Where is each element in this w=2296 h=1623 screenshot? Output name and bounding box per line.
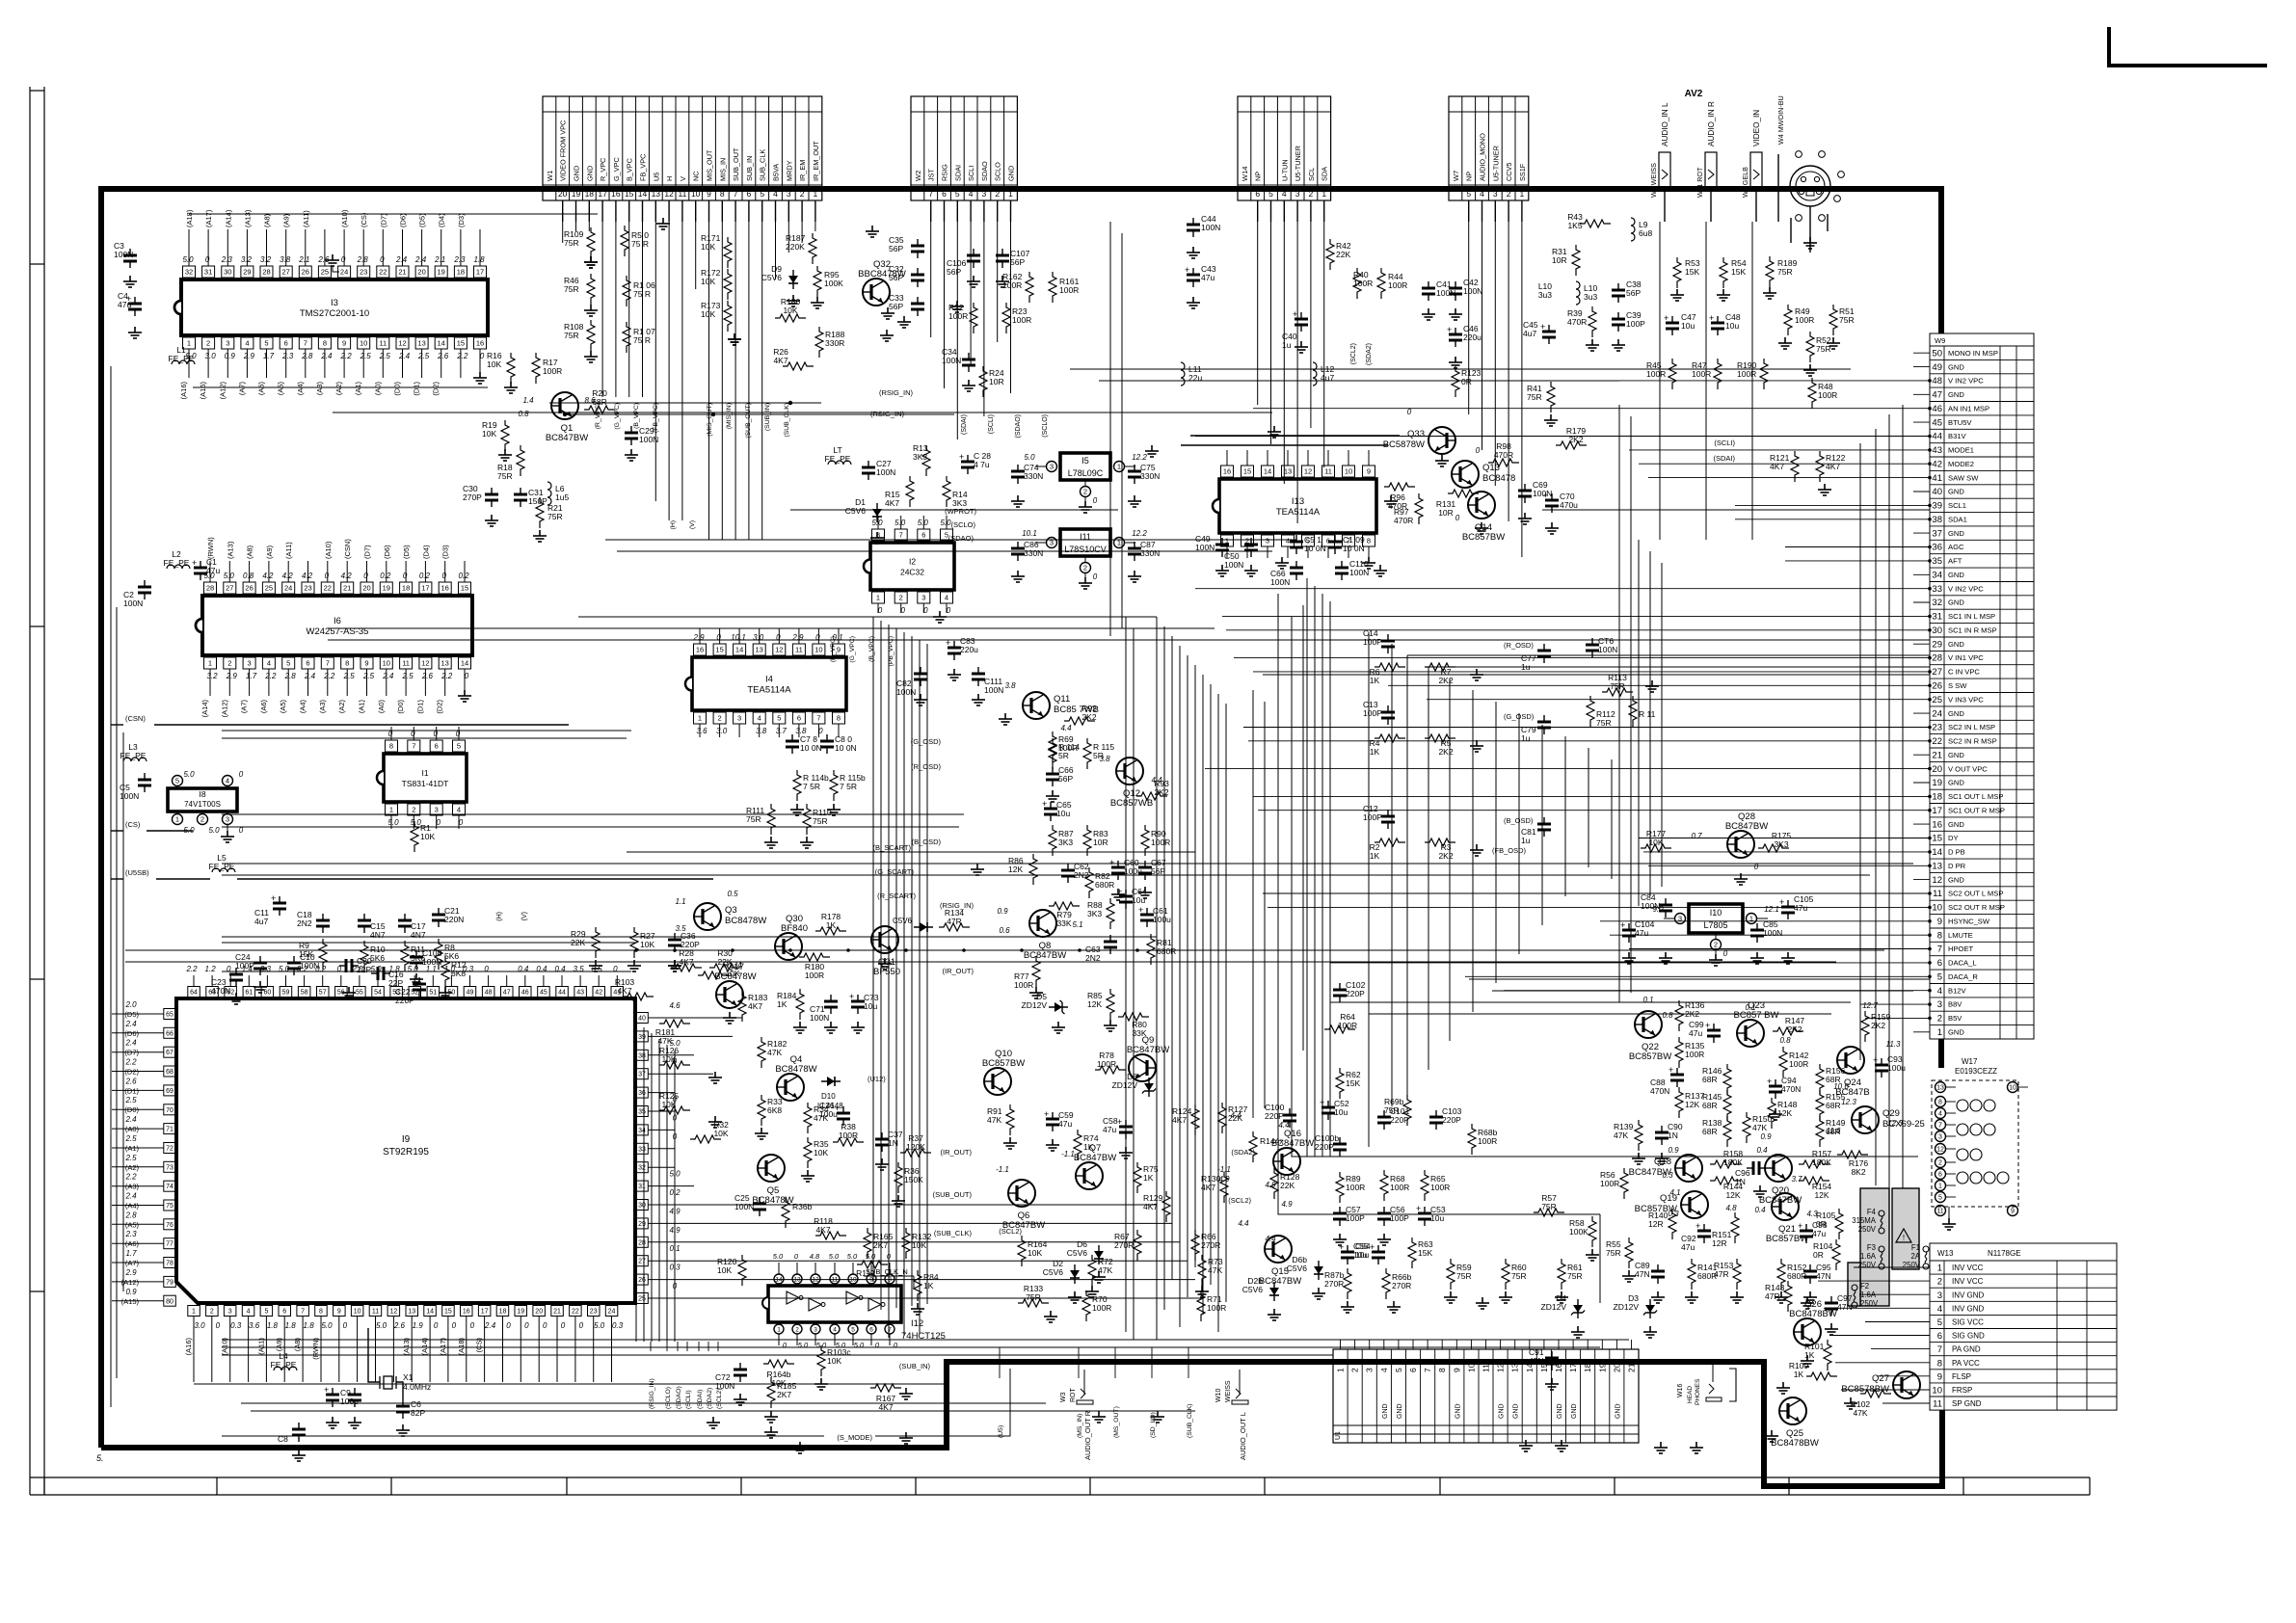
svg-text:0: 0 (716, 633, 721, 642)
svg-text:12K: 12K (1725, 1190, 1740, 1200)
svg-text:GND: GND (1948, 571, 1964, 579)
wire (1314, 586, 1316, 1157)
resistor R108 (587, 320, 595, 351)
ground (878, 958, 892, 970)
svg-text:100N: 100N (1270, 577, 1290, 587)
ground (1079, 577, 1092, 589)
svg-text:JST: JST (927, 168, 936, 181)
pin wire (366, 561, 368, 582)
svg-text:(A0): (A0) (377, 700, 386, 714)
capacitor C36 (668, 933, 681, 952)
svg-text:10R: 10R (989, 377, 1004, 386)
svg-text:47K: 47K (657, 1036, 672, 1046)
resistor R180 (799, 953, 830, 961)
pin wire (413, 815, 414, 829)
pin wire (362, 349, 364, 378)
wire (1078, 1347, 1080, 1378)
svg-text:(A11): (A11) (284, 542, 293, 559)
ground (1268, 426, 1281, 438)
svg-text:1: 1 (187, 339, 191, 348)
wire (1278, 594, 1600, 1214)
pin wire (421, 229, 423, 266)
resistor R178 (815, 927, 846, 935)
wire (888, 625, 890, 1338)
pin wire (211, 975, 213, 986)
svg-text:4.6: 4.6 (669, 1001, 681, 1010)
svg-text:47K: 47K (1853, 1408, 1867, 1418)
wire (1217, 694, 1219, 1332)
svg-text:79: 79 (166, 1279, 174, 1286)
svg-text:100N: 100N (1641, 901, 1660, 911)
svg-text:(A6): (A6) (259, 700, 268, 714)
wire (1945, 1184, 1956, 1186)
svg-text:2.5: 2.5 (360, 352, 372, 360)
wire (695, 222, 697, 289)
capacitor C46 (1449, 328, 1462, 347)
capacitor C103 (1429, 1110, 1443, 1130)
svg-text:10: 10 (1932, 903, 1942, 914)
wire (222, 730, 631, 732)
wire (1818, 1280, 1930, 1282)
svg-text:SCLI: SCLI (967, 166, 975, 181)
svg-text:47u: 47u (1794, 903, 1807, 913)
svg-text:C IN VPC: C IN VPC (1948, 668, 1980, 677)
svg-text:10 0N: 10 0N (1343, 544, 1365, 553)
svg-text:AN IN1 MSP: AN IN1 MSP (1948, 404, 1989, 412)
wire (1195, 588, 1930, 590)
svg-text:75R: 75R (1026, 1292, 1041, 1302)
pin wire (1529, 1340, 1531, 1349)
resistor R7 (1425, 663, 1455, 671)
svg-text:R 11: R 11 (1639, 709, 1656, 719)
svg-text:6: 6 (869, 1326, 873, 1333)
svg-text:75R: 75R (813, 816, 828, 826)
svg-text:0.3: 0.3 (230, 1321, 242, 1330)
svg-text:15: 15 (444, 1309, 452, 1316)
capacitor C105 (1781, 900, 1795, 919)
svg-text:0: 0 (1093, 572, 1098, 581)
svg-text:3K3: 3K3 (1774, 839, 1788, 849)
svg-text:1u5: 1u5 (555, 492, 569, 502)
wire (997, 222, 999, 342)
wire (666, 1045, 668, 1342)
pin wire (207, 229, 209, 266)
svg-text:10.1: 10.1 (731, 633, 746, 642)
svg-text:5: 5 (777, 714, 781, 723)
svg-text:GND: GND (1382, 1403, 1389, 1419)
transistor Q18 (1675, 1155, 1702, 1182)
resistor R145 (1723, 1090, 1731, 1121)
svg-text:100R: 100R (1795, 315, 1814, 325)
resistor R186 (775, 314, 806, 322)
pin wire (484, 1317, 486, 1382)
svg-text:SDAO: SDAO (980, 161, 989, 181)
svg-text:(U5): (U5) (998, 1425, 1004, 1438)
svg-text:120K: 120K (906, 1142, 925, 1152)
svg-text:70: 70 (166, 1107, 174, 1114)
capacitor C5 1 (1290, 535, 1303, 554)
svg-text:10: 10 (360, 339, 367, 348)
svg-text:2.6: 2.6 (421, 672, 434, 680)
wire (668, 222, 670, 520)
svg-text:22K: 22K (1280, 1181, 1295, 1190)
svg-text:3: 3 (226, 339, 229, 348)
ground (1709, 954, 1722, 966)
pin wire (946, 516, 948, 529)
svg-text:2.0: 2.0 (124, 1000, 137, 1009)
svg-text:3u3: 3u3 (1584, 292, 1597, 302)
pin wire (574, 1317, 576, 1382)
svg-text:10R: 10R (1093, 838, 1108, 847)
svg-text:TS831-41DT: TS831-41DT (402, 779, 449, 788)
svg-text:75R: 75R (1606, 1248, 1621, 1258)
svg-text:8: 8 (323, 339, 327, 348)
wire (1860, 1003, 1930, 1005)
resistor R174 (698, 971, 729, 979)
svg-text:+: + (1109, 858, 1114, 867)
resistor R20 (584, 406, 615, 413)
capacitor C66 (1290, 561, 1303, 580)
capacitor C38 (1612, 283, 1625, 303)
wire (575, 222, 577, 231)
svg-text:13: 13 (1510, 1363, 1520, 1372)
svg-text:31: 31 (638, 1184, 646, 1190)
svg-text:(RSIG_IN): (RSIG_IN) (879, 388, 914, 397)
svg-text:3.8: 3.8 (756, 727, 767, 735)
svg-text:3.2: 3.2 (241, 255, 253, 264)
pin wire (648, 1092, 675, 1094)
ground (1844, 1397, 1857, 1409)
resistor R190 (1760, 359, 1768, 389)
pin wire (900, 603, 902, 613)
page margin lines (29, 87, 31, 1495)
ground (1622, 1270, 1636, 1282)
pin wire (1587, 1340, 1589, 1349)
svg-text:9: 9 (837, 646, 841, 654)
pin wire (817, 724, 819, 737)
svg-text:(SUB_OUT): (SUB_OUT) (933, 1190, 973, 1199)
svg-text:100R: 100R (1388, 280, 1407, 290)
svg-text:2.9: 2.9 (692, 633, 705, 642)
pin wire (778, 1334, 780, 1345)
svg-text:11: 11 (1933, 889, 1942, 899)
svg-text:2.4: 2.4 (382, 672, 394, 680)
svg-text:8: 8 (389, 742, 393, 751)
svg-text:19: 19 (438, 268, 445, 277)
svg-text:25: 25 (321, 268, 329, 277)
svg-text:220u: 220u (1463, 333, 1482, 342)
wire (1179, 646, 1181, 1327)
svg-text:65: 65 (166, 1012, 174, 1019)
svg-text:4: 4 (1937, 986, 1942, 997)
svg-text:B31V: B31V (1948, 432, 1967, 440)
svg-text:57: 57 (319, 990, 327, 997)
svg-text:0: 0 (325, 572, 330, 580)
svg-text:D PR: D PR (1948, 862, 1966, 870)
capacitor C73 (851, 995, 865, 1014)
ground (1730, 1291, 1744, 1303)
svg-text:45: 45 (1932, 417, 1942, 428)
svg-text:(A13): (A13) (226, 541, 234, 559)
svg-text:AUDIO_OUT R: AUDIO_OUT R (1083, 1410, 1092, 1460)
svg-text:1: 1 (1937, 1027, 1942, 1038)
svg-text:(G_OSD): (G_OSD) (911, 737, 942, 746)
svg-text:10: 10 (1345, 467, 1352, 476)
svg-text:2.8: 2.8 (124, 1211, 137, 1219)
svg-text:SAW SW: SAW SW (1948, 473, 1979, 482)
svg-text:10 0N: 10 0N (800, 743, 822, 753)
svg-text:27: 27 (226, 584, 233, 593)
svg-text:5.0: 5.0 (798, 1341, 809, 1349)
ground (221, 831, 234, 842)
svg-text:33: 33 (638, 1146, 646, 1153)
svg-text:3: 3 (1937, 999, 1942, 1010)
resistor R181 (659, 1020, 690, 1027)
svg-text:3: 3 (1493, 189, 1498, 199)
svg-text:47u: 47u (1635, 928, 1648, 938)
capacitor C60 (1111, 861, 1125, 880)
wire (1368, 632, 1370, 1147)
svg-text:ROT: ROT (1070, 1388, 1077, 1403)
svg-text:V OUT VPC: V OUT VPC (1948, 764, 1988, 773)
wire (143, 1300, 164, 1302)
svg-text:(A3): (A3) (315, 382, 324, 396)
ground (911, 1303, 924, 1315)
svg-text:4u7: 4u7 (254, 917, 268, 926)
wire (1427, 699, 1930, 701)
svg-text:(A8): (A8) (263, 213, 272, 227)
svg-text:470u: 470u (1560, 500, 1578, 510)
svg-text:F2: F2 (1860, 1282, 1869, 1290)
wire (1322, 594, 1323, 1157)
svg-text:31: 31 (1932, 612, 1942, 623)
svg-text:47K: 47K (1614, 1131, 1628, 1140)
svg-text:2: 2 (995, 189, 1000, 199)
capacitor C23 (229, 968, 243, 987)
svg-text:23: 23 (590, 1309, 598, 1316)
ground (1801, 1355, 1814, 1367)
resistor R68 (1468, 1124, 1476, 1155)
svg-text:22P: 22P (357, 965, 371, 974)
resistor R95 (814, 266, 821, 297)
svg-text:BC8478W: BC8478W (725, 916, 766, 926)
ground (723, 1012, 736, 1024)
svg-text:2N2: 2N2 (297, 918, 312, 928)
svg-text:47: 47 (503, 990, 511, 997)
svg-text:47R: 47R (1714, 1269, 1729, 1279)
svg-text:12: 12 (1936, 1147, 1944, 1154)
ground (1555, 1440, 1568, 1451)
ground (1422, 308, 1435, 320)
svg-text:42: 42 (595, 990, 602, 997)
resistor R142 (1779, 1047, 1787, 1078)
wire (1292, 617, 1918, 1157)
pin wire (268, 561, 270, 582)
wire (1629, 449, 1930, 451)
svg-text:SIG GND: SIG GND (1952, 1332, 1985, 1341)
svg-text:B8V: B8V (1948, 1000, 1962, 1009)
svg-text:3.7: 3.7 (776, 727, 788, 735)
svg-text:20: 20 (417, 268, 425, 277)
svg-text:75R: 75R (564, 238, 579, 248)
svg-text:3: 3 (1937, 1290, 1942, 1301)
svg-text:0: 0 (815, 633, 820, 642)
svg-text:12R: 12R (1712, 1238, 1727, 1248)
ground (485, 515, 498, 526)
svg-text:FRSP: FRSP (1952, 1386, 1972, 1395)
wire (1913, 573, 1930, 575)
svg-text:C5V6: C5V6 (1287, 1264, 1308, 1273)
pin wire (889, 1334, 891, 1345)
svg-text:75R: 75R (1839, 315, 1855, 325)
svg-text:100R: 100R (1207, 1303, 1226, 1313)
svg-text:6: 6 (306, 659, 309, 668)
svg-text:12R: 12R (1648, 1219, 1664, 1229)
pin wire (719, 724, 721, 737)
pin wire (778, 724, 780, 737)
capacitor C17 (398, 914, 412, 933)
svg-text:0: 0 (524, 1321, 529, 1330)
wire (1564, 736, 1566, 896)
svg-text:4: 4 (1937, 1304, 1942, 1315)
pin wire (877, 516, 879, 529)
wire (1171, 636, 1173, 1280)
pin wire (889, 1263, 891, 1274)
svg-text:4: 4 (969, 189, 974, 199)
svg-text:56P: 56P (889, 244, 903, 253)
svg-text:2.4: 2.4 (395, 255, 408, 264)
svg-text:(A0): (A0) (373, 382, 382, 396)
svg-text:BC857BW: BC857BW (982, 1058, 1025, 1069)
svg-text:5.0: 5.0 (182, 255, 194, 264)
wire (1234, 657, 1930, 659)
svg-text:75R: 75R (564, 331, 579, 340)
svg-text:0: 0 (227, 965, 231, 973)
svg-text:4.2: 4.2 (302, 572, 313, 580)
svg-text:100K: 100K (1569, 1227, 1589, 1237)
svg-text:49: 49 (1932, 362, 1942, 373)
capacitor C30 (485, 488, 498, 507)
pin wire (922, 516, 924, 529)
svg-text:0: 0 (434, 1321, 439, 1330)
svg-text:11.6: 11.6 (1827, 1127, 1842, 1135)
svg-text:SCL: SCL (1307, 168, 1316, 181)
svg-text:Q29: Q29 (1882, 1108, 1900, 1119)
svg-text:4: 4 (245, 339, 249, 348)
svg-text:2: 2 (227, 659, 231, 668)
wire (111, 724, 123, 726)
svg-text:2.8: 2.8 (301, 352, 313, 360)
svg-text:1K5: 1K5 (1567, 221, 1582, 230)
resistor R121 (1791, 451, 1799, 482)
capacitor C37 (875, 1132, 889, 1152)
svg-text:0.9: 0.9 (1668, 1146, 1679, 1155)
svg-text:GND: GND (1397, 1403, 1403, 1419)
title block strip (30, 1477, 2090, 1478)
svg-text:+: + (1044, 1109, 1049, 1119)
pin wire (699, 628, 701, 644)
svg-text:0.4: 0.4 (1756, 1146, 1768, 1155)
wire (143, 1205, 164, 1207)
connector W11 ROT (1705, 152, 1717, 187)
wire (143, 1071, 164, 1073)
wire (125, 961, 1836, 963)
wire (1809, 206, 1811, 253)
pin wire (648, 1035, 733, 1037)
svg-text:L78S10CV: L78S10CV (1064, 545, 1107, 554)
svg-text:R144x: R144x (1260, 1136, 1284, 1146)
ground (1444, 1291, 1457, 1303)
ground (1622, 952, 1636, 964)
svg-text:(A3): (A3) (318, 700, 327, 714)
svg-text:12.3: 12.3 (1887, 1119, 1903, 1128)
ground (1377, 1234, 1391, 1245)
svg-text:15K: 15K (1346, 1078, 1360, 1088)
svg-text:GND: GND (1948, 529, 1964, 538)
svg-text:+: + (1543, 491, 1548, 500)
svg-text:SCLO: SCLO (994, 162, 1002, 181)
pin wire (211, 1317, 213, 1382)
svg-text:5: 5 (457, 742, 461, 751)
wire hook (112, 1051, 143, 1053)
svg-text:24: 24 (1932, 708, 1942, 719)
svg-text:Q27: Q27 (1872, 1373, 1889, 1384)
pin wire (1455, 1340, 1457, 1349)
ground (1518, 513, 1532, 524)
ground (728, 333, 741, 345)
IC I1 TS831-41DT (384, 754, 467, 802)
svg-text:470R: 470R (1494, 450, 1513, 460)
svg-text:80: 80 (166, 1298, 174, 1305)
svg-text:GND: GND (1948, 779, 1964, 787)
svg-text:68R: 68R (1702, 1075, 1718, 1084)
pin wire (209, 669, 211, 696)
ground (1801, 1297, 1814, 1309)
resistor R128 (1270, 1168, 1278, 1199)
wire (1715, 933, 1717, 939)
wire (658, 1039, 660, 1342)
capacitor C85 (1750, 923, 1764, 943)
ground (1690, 1442, 1703, 1453)
resistor R36 (894, 1162, 902, 1193)
svg-text:68R: 68R (1702, 1101, 1718, 1110)
resistor R69 (1049, 732, 1056, 762)
svg-text:11: 11 (1936, 1209, 1943, 1215)
pin wire (1246, 450, 1248, 466)
svg-text:18: 18 (457, 268, 465, 277)
svg-text:56P: 56P (1058, 774, 1073, 784)
diode D6 (1094, 1245, 1104, 1264)
wire (1306, 578, 1308, 1157)
pin wire (450, 975, 452, 986)
wire (1945, 1173, 1956, 1175)
svg-text:74V1T00S: 74V1T00S (184, 800, 221, 809)
svg-text:(FB_OSD): (FB_OSD) (1492, 846, 1527, 855)
svg-text:75R: 75R (497, 471, 513, 481)
svg-text:330N: 330N (1140, 471, 1160, 481)
svg-text:11: 11 (1324, 467, 1332, 476)
resistor R26 (783, 362, 814, 370)
svg-text:82P: 82P (411, 1408, 425, 1418)
svg-text:GND: GND (1948, 390, 1964, 399)
svg-text:48: 48 (1932, 376, 1942, 386)
wire (601, 222, 603, 397)
svg-text:20: 20 (1932, 764, 1942, 775)
svg-text:2.4: 2.4 (124, 1020, 137, 1028)
svg-text:C5V6: C5V6 (761, 273, 783, 282)
wire (143, 1032, 164, 1034)
svg-text:+: + (271, 893, 276, 903)
